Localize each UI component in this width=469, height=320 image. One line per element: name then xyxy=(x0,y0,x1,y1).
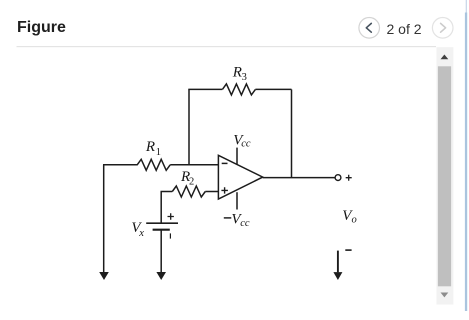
svg-text:R: R xyxy=(145,139,155,155)
svg-text:2: 2 xyxy=(189,177,194,188)
wire: R3 left segment xyxy=(188,88,222,90)
scrollbar up arrow xyxy=(441,55,449,60)
op-amp inverting input minus sign xyxy=(222,162,228,164)
header divider xyxy=(17,46,437,47)
svg-text:1: 1 xyxy=(156,147,161,158)
next page button (disabled) xyxy=(432,18,453,39)
output terminal circle xyxy=(335,175,341,181)
output reference arrow xyxy=(337,251,339,273)
wire: R2 left segment xyxy=(161,191,173,193)
battery Vx top plate xyxy=(146,222,178,224)
wire: node branch up to R3 xyxy=(188,89,190,165)
ground arrow under battery xyxy=(156,272,166,280)
resistor R1 xyxy=(137,159,170,170)
wire: op-amp output to terminal xyxy=(263,177,335,179)
scrollbar down arrow xyxy=(441,293,449,298)
resistor R2 xyxy=(172,186,205,197)
battery Vx bottom plate xyxy=(153,229,170,231)
ground arrow left xyxy=(99,272,109,280)
svg-text:cc: cc xyxy=(241,138,251,149)
output minus sign xyxy=(345,249,351,251)
svg-text:x: x xyxy=(138,228,144,239)
resistor R3 xyxy=(222,84,255,95)
svg-text:2 of 2: 2 of 2 xyxy=(386,21,421,37)
op-amp U1 xyxy=(218,155,262,199)
right frame border xyxy=(466,0,467,13)
battery tick mark xyxy=(169,233,171,238)
wire: R1 left segment xyxy=(103,164,138,166)
wire: -Vcc supply lead xyxy=(236,192,238,209)
wire: R1 right segment to op-amp inverting input xyxy=(170,164,218,166)
wire: Vcc supply lead xyxy=(236,148,238,165)
scrollbar track xyxy=(436,47,453,304)
battery Vx negative lead down to ground arrow xyxy=(160,230,162,272)
svg-text:Figure: Figure xyxy=(17,19,66,36)
output plus sign xyxy=(346,175,352,181)
wire: R2 right segment to op-amp non-inverting input xyxy=(205,191,218,193)
scrollbar thumb xyxy=(438,66,451,286)
wire: left vertical from R1 branch down to ground arrow xyxy=(103,165,105,272)
svg-text:cc: cc xyxy=(240,218,250,229)
op-amp non-inverting input plus sign xyxy=(221,187,228,193)
svg-text:o: o xyxy=(352,215,357,226)
svg-text:R: R xyxy=(232,65,242,81)
label -Vcc xyxy=(224,217,232,219)
wire: R2 left corner down to battery xyxy=(160,192,162,223)
wire: R3 right segment xyxy=(255,88,291,90)
prev page button xyxy=(359,18,380,39)
battery plus sign xyxy=(168,213,174,219)
wire: right vertical from R3 down to output xyxy=(291,89,293,177)
svg-text:3: 3 xyxy=(242,72,247,83)
